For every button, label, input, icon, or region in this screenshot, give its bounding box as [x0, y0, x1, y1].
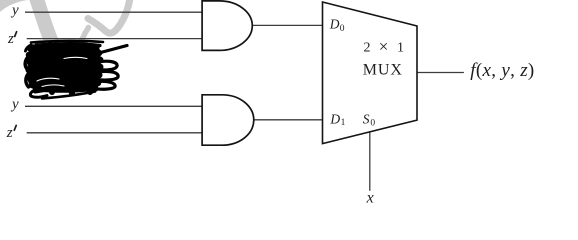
svg-text:x: x — [366, 190, 374, 207]
svg-text:2: 2 — [364, 41, 371, 56]
svg-text:0: 0 — [340, 24, 345, 34]
svg-text:z: z — [7, 31, 14, 47]
svg-text:1: 1 — [397, 41, 404, 56]
svg-text:D: D — [329, 16, 340, 31]
svg-text:D: D — [329, 111, 340, 126]
svg-text:y: y — [10, 2, 19, 18]
svg-text:1: 1 — [341, 118, 346, 128]
svg-text:S: S — [363, 111, 370, 126]
svg-text:0: 0 — [370, 118, 375, 128]
svg-text:MUX: MUX — [363, 61, 403, 78]
svg-text:×: × — [379, 37, 389, 56]
svg-text:y: y — [10, 97, 19, 113]
svg-text:z: z — [6, 125, 13, 141]
svg-text:f(x, y, z): f(x, y, z) — [470, 60, 534, 81]
